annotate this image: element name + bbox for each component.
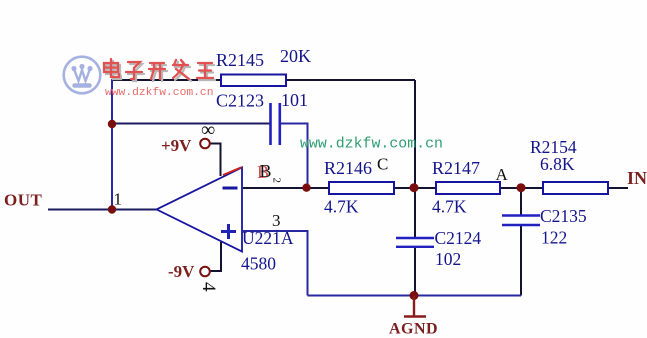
svg-text:-9V: -9V xyxy=(168,262,195,281)
resistor R2147 xyxy=(436,182,500,194)
wire top feedback right segment xyxy=(286,79,415,81)
resistor R2154 xyxy=(543,182,608,194)
wire non-inverting input pin3 xyxy=(243,231,308,296)
wire R2146 to node C xyxy=(394,187,411,189)
node junction dot at C2123 tap xyxy=(108,120,116,128)
ground junction dot xyxy=(410,291,419,300)
svg-text:+9V: +9V xyxy=(161,136,192,155)
svg-text:A: A xyxy=(496,165,509,184)
svg-text:U221A: U221A xyxy=(242,228,294,248)
svg-text:www.dzkfw.com.cn: www.dzkfw.com.cn xyxy=(105,87,213,99)
capacitor C2124 xyxy=(396,237,434,239)
ground AGND symbol stem xyxy=(413,296,415,317)
wire C2135 top lead xyxy=(520,188,522,215)
wire feedback vertical down to node C junction xyxy=(414,80,416,185)
svg-text:R2146: R2146 xyxy=(324,158,372,178)
wire R2154 to IN xyxy=(608,187,628,189)
op-amp plus symbol xyxy=(221,224,236,239)
wire +9V supply to op-amp top xyxy=(210,144,221,177)
svg-text:6.8K: 6.8K xyxy=(540,154,575,174)
-9V terminal circle xyxy=(200,267,210,277)
op-amp red overdraw on top edge xyxy=(223,167,242,175)
wire C2123 left branch xyxy=(112,123,270,125)
resistor R2146 xyxy=(329,182,394,194)
svg-text:3: 3 xyxy=(272,211,281,230)
svg-text:4580: 4580 xyxy=(241,254,276,274)
op-amp minus symbol xyxy=(223,187,238,190)
svg-text:20K: 20K xyxy=(280,46,311,66)
svg-text:C: C xyxy=(377,155,388,174)
op-amp U221A triangle xyxy=(157,167,243,251)
node B junction dot xyxy=(302,184,310,192)
+9V terminal circle xyxy=(200,139,210,149)
wire top feedback left segment xyxy=(112,79,221,81)
ground AGND symbol bar xyxy=(404,315,426,317)
node C junction dot xyxy=(410,183,419,192)
svg-text:B: B xyxy=(260,161,272,181)
wire C2123 right branch xyxy=(281,124,308,185)
wire node C to R2147 xyxy=(417,187,436,189)
svg-text:www.dzkfw.com.cn: www.dzkfw.com.cn xyxy=(300,137,443,153)
wire C2124 top lead xyxy=(414,188,416,238)
svg-text:R2145: R2145 xyxy=(216,50,264,70)
svg-text:∞: ∞ xyxy=(201,119,215,141)
svg-text:C2123: C2123 xyxy=(216,91,264,111)
svg-text:4: 4 xyxy=(198,282,219,292)
svg-text:C2135: C2135 xyxy=(540,206,587,226)
wire node A to R2154 xyxy=(524,187,543,189)
watermark logo circle xyxy=(64,57,101,94)
capacitor C2123 xyxy=(269,103,272,145)
svg-text:2: 2 xyxy=(271,178,283,184)
wire -9V supply to op-amp bottom xyxy=(210,242,221,271)
wire inverting input to node B junction xyxy=(243,187,304,189)
wire bottom ground bus xyxy=(308,295,522,297)
svg-text:C2124: C2124 xyxy=(435,228,482,248)
wire R2147 to node A xyxy=(500,187,518,189)
svg-text:4.7K: 4.7K xyxy=(432,197,467,217)
wire output horizontal to op-amp xyxy=(48,209,157,211)
wire left vertical bus xyxy=(111,79,113,210)
watermark chinese title shadow xyxy=(106,61,215,81)
node junction dot at output xyxy=(108,205,116,213)
watermark chinese title xyxy=(104,59,213,79)
svg-text:AGND: AGND xyxy=(389,321,438,338)
svg-text:OUT: OUT xyxy=(4,191,43,210)
svg-text:4.7K: 4.7K xyxy=(324,197,359,217)
wire C2135 bottom lead xyxy=(520,226,522,296)
svg-text:R2147: R2147 xyxy=(432,158,480,178)
wire node B to R2146 xyxy=(309,187,329,189)
svg-text:101: 101 xyxy=(281,90,308,110)
node A junction dot xyxy=(517,183,526,192)
resistor R2145 xyxy=(221,75,286,87)
svg-text:122: 122 xyxy=(541,228,567,248)
wire C2124 bottom lead xyxy=(414,248,416,296)
capacitor C2135 xyxy=(502,214,540,216)
svg-text:102: 102 xyxy=(435,249,461,269)
svg-text:IN: IN xyxy=(627,168,647,188)
svg-text:1: 1 xyxy=(114,190,123,209)
